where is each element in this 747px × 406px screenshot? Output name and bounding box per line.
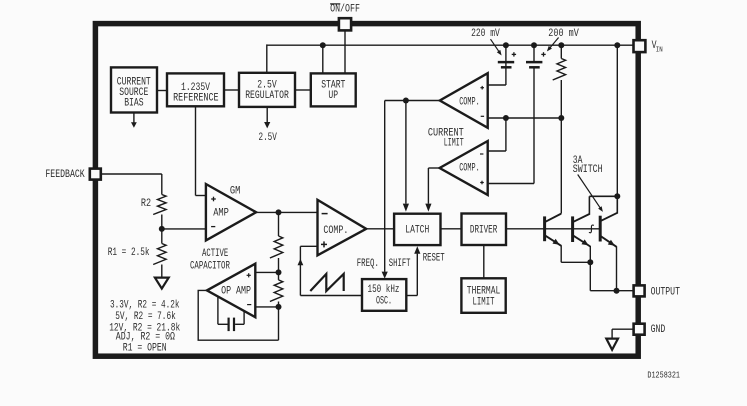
- svg-text:R2: R2: [141, 197, 151, 209]
- svg-text:150 kHz: 150 kHz: [368, 283, 400, 295]
- svg-text:220 mV: 220 mV: [471, 27, 500, 39]
- svg-text:SHIFT: SHIFT: [389, 257, 411, 269]
- svg-text:LATCH: LATCH: [405, 223, 429, 235]
- svg-text:FEEDBACK: FEEDBACK: [45, 168, 85, 180]
- svg-text:COMP.: COMP.: [459, 162, 480, 174]
- svg-text:SWITCH: SWITCH: [573, 163, 603, 175]
- svg-text:IN: IN: [656, 46, 663, 55]
- svg-text:D1258321: D1258321: [647, 370, 680, 381]
- svg-text:UP: UP: [328, 89, 338, 101]
- svg-text:OUTPUT: OUTPUT: [651, 285, 681, 297]
- svg-text:CAPACITOR: CAPACITOR: [190, 259, 230, 271]
- svg-text:REFERENCE: REFERENCE: [173, 92, 219, 104]
- svg-text:200 mV: 200 mV: [548, 27, 579, 39]
- svg-text:LIMIT: LIMIT: [444, 137, 464, 149]
- svg-text:BIAS: BIAS: [124, 96, 144, 108]
- svg-text:R1 = 2.5k: R1 = 2.5k: [108, 246, 150, 258]
- svg-text:ACTIVE: ACTIVE: [202, 247, 228, 259]
- svg-text:2.5V: 2.5V: [259, 131, 278, 143]
- svg-text:OSC.: OSC.: [376, 295, 392, 307]
- svg-text:R1 = OPEN: R1 = OPEN: [123, 342, 167, 354]
- svg-text:REGULATOR: REGULATOR: [245, 89, 289, 101]
- svg-text:COMP.: COMP.: [323, 224, 348, 236]
- svg-text:COMP.: COMP.: [459, 95, 480, 107]
- svg-text:3.3V, R2 = 4.2k: 3.3V, R2 = 4.2k: [110, 298, 180, 310]
- svg-text:AMP: AMP: [213, 207, 229, 219]
- svg-text:ON/OFF: ON/OFF: [330, 3, 360, 15]
- svg-text:FREQ.: FREQ.: [357, 257, 379, 269]
- svg-text:GND: GND: [651, 323, 666, 335]
- svg-text:RESET: RESET: [423, 251, 445, 263]
- svg-text:OP AMP: OP AMP: [221, 284, 251, 296]
- svg-text:LIMIT: LIMIT: [473, 295, 495, 307]
- svg-text:GM: GM: [230, 184, 241, 196]
- svg-text:DRIVER: DRIVER: [470, 223, 498, 235]
